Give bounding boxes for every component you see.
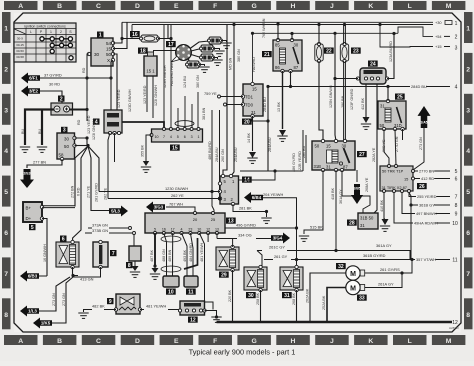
svg-text:271 YE: 271 YE [87, 185, 91, 198]
ground spark plug 4 [199, 67, 209, 72]
wire unit24 left to 335 drop [335, 78, 358, 80]
svg-text:F: F [213, 338, 217, 345]
wire 361B GY row 8 [411, 204, 450, 206]
svg-text:6 RD: 6 RD [77, 187, 81, 196]
wire 13 BK relay21 86 to ground [282, 71, 284, 129]
svg-text:12: 12 [452, 320, 458, 326]
horn 9 [114, 294, 141, 314]
wire 261A GY motor33 [365, 273, 402, 288]
ground spark plug 3 [212, 60, 222, 65]
svg-text:252A BK: 252A BK [322, 295, 326, 310]
off-page arrow 3/E2 [21, 86, 40, 97]
wire +54 rail [253, 32, 399, 34]
svg-text:20: 20 [244, 119, 250, 125]
svg-text:2: 2 [4, 66, 8, 73]
svg-text:5: 5 [177, 135, 179, 139]
svg-text:A: A [18, 3, 23, 10]
svg-text:50 TRK T1P: 50 TRK T1P [382, 169, 404, 174]
svg-text:HA/WRD: HA/WRD [252, 57, 256, 72]
wire 412 BK unit24 down to ground [365, 84, 367, 117]
svg-text:15: 15 [326, 144, 331, 149]
wire pair MD GN to unit 14 [231, 25, 234, 177]
svg-text:20: 20 [193, 217, 198, 222]
svg-text:282A YE: 282A YE [372, 147, 376, 162]
svg-text:5/L3: 5/L3 [111, 209, 120, 214]
svg-text:1230 GN/WH: 1230 GN/WH [165, 186, 188, 191]
wire fuse23 riser double [343, 25, 345, 45]
svg-text:273 GN: 273 GN [62, 293, 66, 306]
sensor 8 [129, 246, 141, 261]
svg-text:122B YE/RD: 122B YE/RD [298, 151, 302, 172]
svg-text:493 BK: 493 BK [183, 249, 187, 262]
svg-text:50: 50 [106, 52, 112, 57]
svg-text:BU: BU [21, 129, 25, 134]
svg-text:5: 5 [455, 169, 458, 175]
svg-text:8: 8 [466, 312, 470, 319]
wire 277 BN [42, 159, 62, 165]
component label 30 [246, 292, 256, 298]
svg-text:284A BU: 284A BU [215, 147, 219, 162]
svg-text:123N GN/WH: 123N GN/WH [163, 65, 167, 88]
svg-text:373A GN: 373A GN [92, 223, 108, 228]
svg-text:355 BK: 355 BK [141, 144, 145, 157]
svg-text:486 GY/RD: 486 GY/RD [292, 153, 296, 172]
svg-text:5: 5 [4, 189, 8, 196]
svg-text:7: 7 [466, 271, 470, 278]
component label 10 [166, 289, 176, 295]
svg-text:31: 31 [284, 293, 290, 299]
unit 11 [184, 276, 198, 287]
wire 497 BN/WH row 9 [402, 193, 450, 214]
svg-text:30-58: 30-58 [16, 55, 24, 59]
svg-text:21: 21 [264, 52, 270, 58]
svg-text:280 BN: 280 BN [341, 95, 345, 108]
svg-text:1/B5: 1/B5 [353, 187, 360, 191]
svg-text:25: 25 [397, 94, 403, 100]
ground 14 BK [247, 152, 257, 163]
shield ring over risers [175, 121, 194, 127]
svg-text:282 YE: 282 YE [104, 187, 108, 200]
component label 12 [188, 317, 198, 323]
grid letter tabs top [4, 1, 465, 10]
component label 25 [395, 94, 405, 100]
svg-text:6/B3: 6/B3 [28, 274, 38, 279]
svg-text:54: 54 [106, 41, 112, 46]
wire +54 drop 335 [334, 33, 336, 78]
svg-text:255 YE/RD: 255 YE/RD [417, 194, 437, 199]
component label 27 [357, 151, 367, 157]
svg-text:7: 7 [455, 194, 458, 200]
wires 273 GN down-left [52, 277, 73, 323]
relay 25 [378, 99, 406, 130]
ground bus wire 12 [217, 321, 453, 323]
svg-text:M: M [350, 271, 356, 278]
component label 13 [226, 218, 236, 224]
svg-text:13: 13 [228, 218, 234, 224]
svg-text:2770 BN: 2770 BN [419, 168, 434, 173]
wire 284A BU branch [267, 87, 269, 172]
wire 273 GN from arrow down [413, 128, 424, 170]
wire 14 BK unit20 to ground [252, 116, 254, 151]
svg-text:6/B4: 6/B4 [252, 195, 262, 200]
svg-text:14 BK: 14 BK [247, 132, 251, 143]
component label 11 [186, 289, 196, 295]
svg-text:28: 28 [349, 220, 355, 226]
svg-text:2: 2 [466, 66, 470, 73]
wire coil HT to distributor [154, 51, 177, 53]
svg-text:10: 10 [197, 228, 201, 232]
wire +54 riser to DI unit 20 [252, 33, 254, 84]
svg-text:268 BK: 268 BK [292, 292, 296, 305]
pump unit 6 [56, 240, 79, 268]
component label 18 [138, 48, 148, 54]
ignition amplifier 14 [218, 174, 238, 205]
wire fuse22 riser [318, 25, 320, 45]
component label 21 [262, 51, 272, 57]
svg-text:380 GN: 380 GN [196, 75, 200, 88]
svg-text:6: 6 [4, 230, 8, 237]
svg-text:8: 8 [455, 203, 458, 209]
relay 12 [178, 301, 206, 315]
wire B+ double [42, 205, 75, 207]
svg-text:31: 31 [326, 165, 331, 170]
svg-text:Typical early 900 models - par: Typical early 900 models - part 1 [189, 348, 296, 357]
svg-text:123 YE/RD: 123 YE/RD [143, 85, 147, 104]
plug ground leads [221, 41, 227, 43]
ground bus main [211, 317, 221, 322]
wire 49HA RD/WH row 10 [394, 193, 450, 224]
svg-text:29: 29 [221, 272, 227, 278]
svg-text:3/G3: 3/G3 [154, 205, 164, 210]
svg-text:85: 85 [275, 43, 280, 48]
wire starter 30 [75, 138, 88, 145]
ground battery minus b [37, 147, 47, 152]
wire 284D BU row 4 [268, 86, 450, 88]
control unit 26 [380, 165, 415, 193]
svg-text:M: M [350, 285, 356, 292]
svg-text:26: 26 [419, 184, 425, 190]
component label 3 [61, 127, 68, 133]
svg-text:277D GN: 277D GN [395, 136, 399, 152]
svg-text:7: 7 [4, 271, 8, 278]
wires below connector 13 [154, 233, 156, 266]
svg-text:15: 15 [404, 177, 408, 182]
wire ignition 15 [113, 22, 127, 48]
svg-text:30-X: 30-X [17, 37, 23, 41]
svg-text:1/L3: 1/L3 [28, 309, 37, 314]
svg-text:50: 50 [64, 144, 69, 149]
wire loom risers to connector 15 [163, 25, 165, 129]
component label 31 [282, 292, 292, 298]
wire valve31 down 268 BK [296, 290, 298, 322]
svg-text:15 1: 15 1 [146, 69, 155, 74]
component label 9 [107, 298, 114, 304]
unit 10 [163, 276, 179, 287]
svg-text:A: A [18, 338, 23, 345]
svg-text:1: 1 [4, 26, 8, 33]
svg-text:2: 2 [455, 35, 458, 41]
svg-text:31: 31 [360, 223, 365, 228]
svg-text:13: 13 [215, 228, 219, 232]
battery feed terminals right [434, 20, 442, 25]
svg-text:123F GN/RD: 123F GN/RD [350, 88, 354, 110]
wire ignition 50 [113, 54, 117, 96]
svg-text:334 OG: 334 OG [238, 233, 252, 238]
wire fuse22 down to relay27 50 [319, 61, 323, 141]
wire 255 YE/RD row 7 [409, 193, 450, 197]
svg-text:24: 24 [370, 61, 376, 67]
svg-text:K: K [368, 338, 373, 345]
svg-text:373B GN: 373B GN [92, 228, 108, 233]
off-page arrow 1/B5 [351, 184, 363, 204]
svg-text:11: 11 [188, 289, 194, 295]
svg-text:31: 31 [380, 104, 385, 109]
wire +30 top rail [122, 21, 433, 23]
svg-text:381 BN: 381 BN [202, 107, 206, 120]
wire 281 BK unit14 to ground [233, 204, 267, 217]
wire 357 VT/WH row 11 [412, 259, 450, 261]
svg-text:496 GY/RD: 496 GY/RD [236, 223, 256, 228]
wire ignition 54 to fuse 16 [113, 22, 122, 43]
svg-text:49HA RD/WH: 49HA RD/WH [414, 220, 438, 225]
svg-text:87: 87 [294, 65, 299, 70]
svg-text:1: 1 [198, 135, 200, 139]
svg-text:87: 87 [343, 165, 348, 170]
wire fuse 16 to +30 rail [158, 24, 168, 39]
svg-text:261C GY: 261C GY [269, 245, 285, 250]
svg-text:261 GY: 261 GY [274, 254, 288, 259]
svg-text:124 BU: 124 BU [183, 75, 187, 88]
svg-text:16: 16 [132, 32, 138, 38]
svg-text:30: 30 [64, 137, 69, 142]
svg-text:B: B [57, 3, 62, 10]
grid number tabs right [464, 12, 473, 329]
svg-text:6: 6 [184, 135, 186, 139]
component label 20 [242, 119, 252, 125]
wire battery feed to ignition 30 [87, 54, 89, 121]
ground 13 BK [277, 130, 287, 141]
wire box26 87 down to motor row [409, 193, 411, 260]
ground 515 BK [299, 236, 309, 241]
ground battery minus a [20, 147, 30, 152]
svg-text:258 BK: 258 BK [256, 292, 260, 305]
svg-text:4: 4 [170, 135, 172, 139]
wire 37 GY/RD [40, 77, 111, 79]
svg-text:TD1: TD1 [245, 95, 254, 100]
component label 17 [166, 41, 176, 47]
svg-text:27: 27 [359, 152, 365, 158]
svg-text:25: 25 [211, 217, 216, 222]
vac valve 31 [280, 265, 303, 291]
ground spark plug 1 [221, 43, 231, 48]
svg-text:497 BN/WH: 497 BN/WH [416, 211, 437, 216]
wire starter 50 junction [75, 145, 89, 147]
svg-text:16 GN/WH: 16 GN/WH [43, 244, 47, 262]
svg-text:4: 4 [4, 148, 8, 155]
spark plug connector cyl3 [200, 54, 215, 61]
wire relay21 85 to +30 [277, 24, 279, 40]
svg-text:RD: RD [82, 67, 86, 73]
wire battery plus feed RD [69, 109, 87, 111]
relay 27 [312, 139, 355, 171]
off-page arrow 3/G4 [271, 233, 290, 244]
component label 24 [368, 61, 378, 67]
main connector 13 [145, 212, 225, 235]
svg-text:123I GN/WH: 123I GN/WH [92, 119, 96, 140]
svg-text:86B YE: 86B YE [382, 139, 386, 152]
svg-text:30: 30 [94, 52, 100, 57]
ground 281 BK [261, 218, 271, 223]
alternator terminals 5 [23, 202, 44, 222]
svg-text:H: H [291, 3, 296, 10]
wire 412 RD row 6 [415, 178, 451, 180]
svg-text:273 GN: 273 GN [419, 137, 423, 150]
svg-text:261A GY: 261A GY [378, 282, 394, 287]
svg-text:482 BK: 482 BK [92, 304, 105, 309]
fuse 22 [315, 42, 323, 62]
svg-text:TD0: TD0 [245, 103, 254, 108]
spark plug connector cyl4 [186, 61, 201, 68]
wire +15 rail [380, 25, 433, 48]
off-page arrow 1/A5 [418, 106, 431, 128]
vac valve 30 [244, 265, 267, 291]
svg-text:22: 22 [326, 48, 332, 54]
svg-text:11: 11 [452, 257, 457, 263]
svg-text:M: M [446, 338, 452, 345]
svg-text:123A BU/RD: 123A BU/RD [389, 41, 393, 62]
svg-text:3: 3 [4, 107, 8, 114]
wire 361A GY relay27 31 down [335, 170, 337, 251]
off-page arrow 2/E3 [20, 169, 34, 188]
wire ignition X [111, 60, 113, 96]
svg-text:37 GY/RD: 37 GY/RD [44, 73, 62, 78]
svg-text:G: G [251, 338, 256, 345]
svg-text:123I GN/WH: 123I GN/WH [154, 85, 158, 106]
svg-text:D: D [135, 3, 140, 10]
component label 32 [336, 263, 346, 269]
ground 410 BK [380, 226, 390, 231]
svg-text:12: 12 [190, 317, 196, 323]
wires coil primary down [146, 76, 148, 112]
wire unit7 bottom [73, 267, 101, 277]
svg-text:E: E [174, 3, 179, 10]
svg-text:33: 33 [359, 295, 365, 301]
svg-text:30-50: 30-50 [16, 49, 24, 53]
svg-text:6: 6 [466, 230, 470, 237]
svg-text:D: D [135, 338, 140, 345]
off-page arrow 1/B5 down [356, 170, 358, 182]
spark plug connector cyl1 [208, 37, 223, 44]
svg-text:F: F [213, 3, 217, 10]
wire fuse23 down to relay27 30 double [343, 61, 345, 141]
svg-text:515 BK: 515 BK [310, 225, 323, 230]
svg-text:220 BK: 220 BK [228, 289, 232, 302]
svg-text:261 GY/RS: 261 GY/RS [380, 267, 400, 272]
ground unit28 [384, 193, 385, 220]
wire relay12 to bus ground [205, 311, 217, 318]
svg-text:31B 50: 31B 50 [360, 216, 374, 221]
svg-text:32: 32 [338, 264, 344, 270]
wire 413 GN junction [72, 267, 74, 275]
svg-text:2: 2 [60, 96, 63, 102]
svg-text:9: 9 [109, 299, 112, 305]
HT leads to spark plugs [190, 41, 209, 49]
svg-text:30: 30 [294, 43, 299, 48]
motor 33 [346, 280, 365, 294]
component label 4 [93, 119, 100, 125]
wires connector 4 down [108, 133, 110, 199]
svg-text:G: G [251, 3, 256, 10]
svg-text:+15: +15 [435, 44, 442, 49]
svg-text:5: 5 [154, 228, 156, 232]
svg-text:31B: 31B [314, 164, 322, 169]
starter unit 3 [57, 133, 76, 161]
off-page arrow 6/B4 [244, 192, 263, 203]
wire 123A BU/RD [387, 34, 394, 79]
wire fuse16 to loom riser [158, 38, 171, 40]
svg-text:481 YE/WH: 481 YE/WH [200, 242, 204, 262]
svg-text:262A BK: 262A BK [306, 288, 310, 303]
wire relay25 31 to 284D BU [387, 87, 389, 102]
wire relay27 87 [342, 170, 370, 215]
off-page arrow 5/L3 [109, 206, 128, 217]
wire 261 GY/RS motor32 [365, 260, 412, 274]
svg-text:1/A5: 1/A5 [420, 121, 427, 125]
svg-text:17: 17 [171, 228, 175, 232]
wire link 284A to 486 GY/RD [240, 170, 303, 172]
ignition switch connections table [14, 23, 76, 62]
component label 33 [357, 295, 367, 301]
component label 16 [130, 31, 140, 37]
svg-text:3: 3 [191, 135, 193, 139]
wire battery minus to grounds [25, 110, 54, 146]
svg-text:357 VT/WH: 357 VT/WH [416, 257, 436, 262]
svg-text:D+: D+ [26, 216, 32, 221]
switch unit 24 [356, 68, 388, 84]
svg-text:X: X [107, 58, 110, 63]
svg-text:254A BU: 254A BU [234, 147, 238, 162]
svg-text:L: L [408, 3, 412, 10]
svg-text:410 BK: 410 BK [380, 199, 384, 212]
component label 23 [351, 48, 361, 54]
svg-text:HA/WRD HEE1: HA/WRD HEE1 [170, 60, 174, 86]
svg-text:+54: +54 [435, 34, 442, 39]
off-page arrow 6/B3 [20, 271, 39, 282]
svg-text:L: L [30, 30, 32, 34]
spark plug connector cyl2 [200, 45, 215, 52]
svg-text:30: 30 [248, 293, 254, 299]
svg-text:262 YE: 262 YE [171, 193, 184, 198]
svg-text:18: 18 [140, 48, 146, 54]
wire 2770 BN row 5 [415, 170, 451, 172]
wire relay21 87 to 284D BU [290, 71, 292, 87]
off-page arrow 1/K5 [33, 318, 52, 329]
svg-text:4: 4 [455, 85, 458, 91]
ground spark plug 2 [214, 51, 224, 56]
svg-text:277 BN: 277 BN [33, 160, 46, 165]
svg-text:7: 7 [112, 251, 115, 257]
component label 8 [126, 262, 133, 268]
svg-text:481 YE/WH: 481 YE/WH [146, 304, 166, 309]
connector strip 15 [150, 128, 203, 143]
svg-text:281 GY/RD: 281 GY/RD [95, 183, 99, 202]
svg-text:3: 3 [455, 46, 458, 52]
wires relay25 to unit26 [384, 129, 389, 166]
svg-text:412 BK: 412 BK [361, 97, 365, 110]
svg-text:489 BN: 489 BN [168, 249, 172, 262]
component label 29 [219, 272, 229, 278]
svg-text:6/F1: 6/F1 [29, 76, 38, 81]
